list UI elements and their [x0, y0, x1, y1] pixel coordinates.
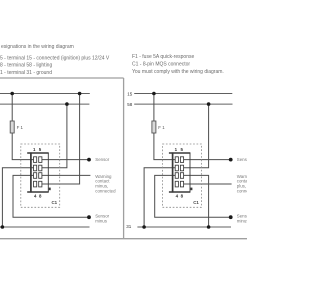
pin labels top 1 5 — [175, 147, 184, 152]
svg-text:connected: connected — [95, 188, 116, 193]
pin 6 — [39, 165, 42, 171]
svg-text:1 - terminal 31 - ground: 1 - terminal 31 - ground — [0, 70, 52, 76]
pin 6 — [180, 165, 183, 171]
node bus58 — [65, 102, 69, 106]
pin labels bottom 4 8 — [34, 194, 42, 199]
pin 3 — [34, 173, 37, 179]
connector notch — [49, 188, 51, 191]
connector C1 housing — [169, 152, 191, 192]
node bus15/fuse — [10, 92, 14, 96]
node bus15 right — [78, 92, 82, 96]
svg-text:You must comply with the wirin: You must comply with the wiring diagram. — [132, 69, 224, 75]
pin 3 — [175, 173, 178, 179]
pin 4 — [34, 181, 37, 187]
svg-text:15: 15 — [127, 91, 133, 96]
label sensor minus — [237, 214, 251, 224]
bus 31 — [0, 226, 90, 228]
svg-text:8 - terminal 58 - lighting: 8 - terminal 58 - lighting — [0, 63, 52, 69]
dashed boundary C1 — [21, 144, 60, 207]
connector C1 housing — [27, 152, 49, 192]
legend text block left — [0, 44, 110, 76]
wire pin8 warning contact — [184, 183, 232, 185]
bus 58 — [0, 103, 89, 105]
wire pin2 to ground bus — [144, 168, 175, 227]
wire pin2 to ground bus — [2, 168, 33, 227]
pin 7 — [180, 173, 183, 179]
pin labels bottom 4 8 — [176, 194, 184, 199]
connector notch — [190, 188, 192, 191]
wire fuse feed — [11, 94, 13, 122]
pin 8 — [39, 181, 42, 187]
bus 58 — [134, 103, 232, 105]
node sensor minus — [229, 215, 233, 219]
node sensor minus — [87, 215, 91, 219]
node sensor — [87, 158, 91, 162]
wire pin6 to bus58 — [184, 104, 209, 168]
node bus58 — [207, 102, 211, 106]
wire pin5 to sensor — [184, 159, 231, 161]
pin 5 — [180, 157, 183, 163]
footer rule — [0, 238, 247, 240]
wire pin6 to bus58 — [42, 104, 67, 168]
svg-text:C1: C1 — [193, 200, 199, 205]
horizontal rule left page — [0, 77, 124, 79]
node bus31 right — [207, 225, 211, 229]
svg-text:5 - terminal 15 - connected (i: 5 - terminal 15 - connected (ignition) p… — [0, 55, 110, 61]
terminal labels — [126, 91, 133, 229]
svg-text:minus: minus — [95, 218, 108, 223]
label sensor minus — [95, 214, 109, 224]
label warning contact plus connected — [237, 174, 258, 193]
svg-text:connected: connected — [237, 188, 247, 193]
svg-text:F 1: F 1 — [17, 125, 24, 130]
page separator — [123, 78, 125, 239]
svg-text:Sensor: Sensor — [95, 157, 109, 162]
pin 4 — [175, 181, 178, 187]
legend text block right — [132, 54, 224, 75]
node bus31 left — [142, 225, 146, 229]
wire pin3 to sensor minus — [155, 175, 231, 217]
svg-text:F1 - fuse 5A quick-response: F1 - fuse 5A quick-response — [132, 54, 194, 60]
wire fuse to pin1 — [154, 133, 175, 160]
wire pin5 to sensor — [42, 159, 89, 161]
pin 8 — [180, 181, 183, 187]
node sensor — [229, 158, 233, 162]
wire fuse feed — [153, 94, 155, 122]
pin 1 — [175, 157, 178, 163]
wire fuse to pin1 — [12, 133, 33, 160]
svg-text:esignations in the wiring diag: esignations in the wiring diagram — [1, 44, 74, 50]
node bus15/fuse — [152, 92, 156, 96]
fuse F1 — [10, 121, 14, 133]
wire pin7 to bus31 — [184, 175, 209, 227]
node bus31 left — [1, 225, 5, 229]
pin 2 — [175, 165, 178, 171]
bus 15 — [134, 93, 232, 95]
fuse F1 — [152, 121, 156, 133]
pin 2 — [34, 165, 37, 171]
dashed boundary C1 — [163, 144, 202, 207]
wire pin8 to bus15 — [42, 94, 80, 185]
pin 7 — [39, 173, 42, 179]
wire pin3 to sensor minus — [13, 175, 89, 217]
label warning contact minus connected — [95, 174, 116, 193]
pin 5 — [39, 157, 42, 163]
bus 31 — [137, 226, 231, 228]
svg-text:31: 31 — [126, 224, 132, 229]
svg-text:58: 58 — [127, 102, 133, 107]
wire pin7 warning contact — [42, 174, 91, 176]
svg-text:C1 - 8-pin MQS connector: C1 - 8-pin MQS connector — [132, 62, 190, 68]
svg-text:minus: minus — [237, 218, 247, 223]
svg-text:Sensor: Sensor — [237, 157, 247, 162]
svg-text:C1: C1 — [52, 200, 58, 205]
pin 1 — [34, 157, 37, 163]
bus 15 — [0, 93, 90, 95]
pin labels top 1 5 — [33, 147, 42, 152]
svg-text:F 1: F 1 — [158, 125, 165, 130]
